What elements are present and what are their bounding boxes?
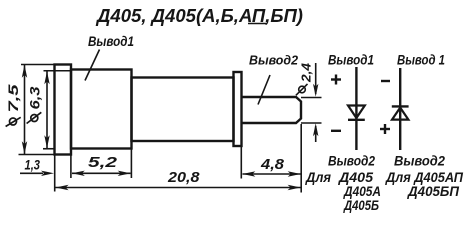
- label Вывод1 (case): [88, 33, 134, 49]
- diode D1 triangle: [348, 106, 365, 119]
- diode D1 wire: [355, 67, 357, 150]
- svg-text:6,3: 6,3: [27, 86, 43, 109]
- svg-text:2,4: 2,4: [300, 63, 314, 83]
- diode D1 minus sign: [331, 130, 341, 132]
- svg-text:5,2: 5,2: [88, 154, 118, 171]
- diode D2 wire: [399, 68, 401, 150]
- svg-text:Вывод2: Вывод2: [249, 54, 298, 68]
- title Д405, Д405(А,Б,АП,БП): [95, 6, 303, 26]
- diode D2 cathode bar: [392, 105, 409, 107]
- diode D1 plus sign: [331, 75, 341, 85]
- diode D2 plus sign: [380, 124, 390, 134]
- body section 2: [132, 78, 234, 142]
- dimension ø6,3: [43, 71, 72, 149]
- body section 1 (ø6,3): [71, 70, 132, 149]
- svg-text:Вывод2: Вывод2: [328, 153, 375, 169]
- diode D2 triangle: [392, 108, 408, 120]
- svg-text:Вывод2: Вывод2: [394, 153, 445, 169]
- label ø6,3: [27, 86, 43, 123]
- dimension ø7,5: [19, 65, 55, 155]
- svg-text:Вывод1: Вывод1: [328, 52, 374, 68]
- dimension 20,8: [56, 185, 301, 190]
- svg-text:7,5: 7,5: [5, 84, 21, 112]
- svg-text:4,8: 4,8: [260, 156, 285, 173]
- svg-text:Для: Для: [305, 169, 331, 185]
- pin (ø2,4) with chamfered tip: [242, 97, 302, 123]
- svg-text:Д405БП: Д405БП: [407, 183, 460, 199]
- label ø2,4: [296, 63, 314, 95]
- diode D1 cathode bar: [348, 119, 365, 121]
- svg-text:Д405Б: Д405Б: [343, 197, 379, 213]
- leader to Вывод2: [258, 75, 270, 105]
- diode D2 minus sign: [381, 80, 390, 82]
- svg-text:1,3: 1,3: [25, 158, 41, 173]
- svg-text:20,8: 20,8: [167, 169, 200, 186]
- extension lines below body: [55, 124, 302, 193]
- dimension 5,2: [72, 171, 131, 176]
- svg-text:Д405, Д405(А,Б,АП,БП): Д405, Д405(А,Б,АП,БП): [95, 6, 303, 26]
- flange (ø7,5): [55, 65, 72, 155]
- svg-text:Вывод1: Вывод1: [88, 33, 134, 49]
- label Вывод2 (pin): [249, 54, 298, 68]
- dimension 1,3: [20, 171, 54, 176]
- dimension ø2,4: [301, 63, 322, 142]
- svg-text:Вывод 1: Вывод 1: [397, 52, 445, 68]
- collar ring: [234, 72, 242, 146]
- label ø7,5: [5, 84, 21, 126]
- leader to Вывод1: [85, 50, 100, 81]
- dimension 4,8: [242, 171, 300, 176]
